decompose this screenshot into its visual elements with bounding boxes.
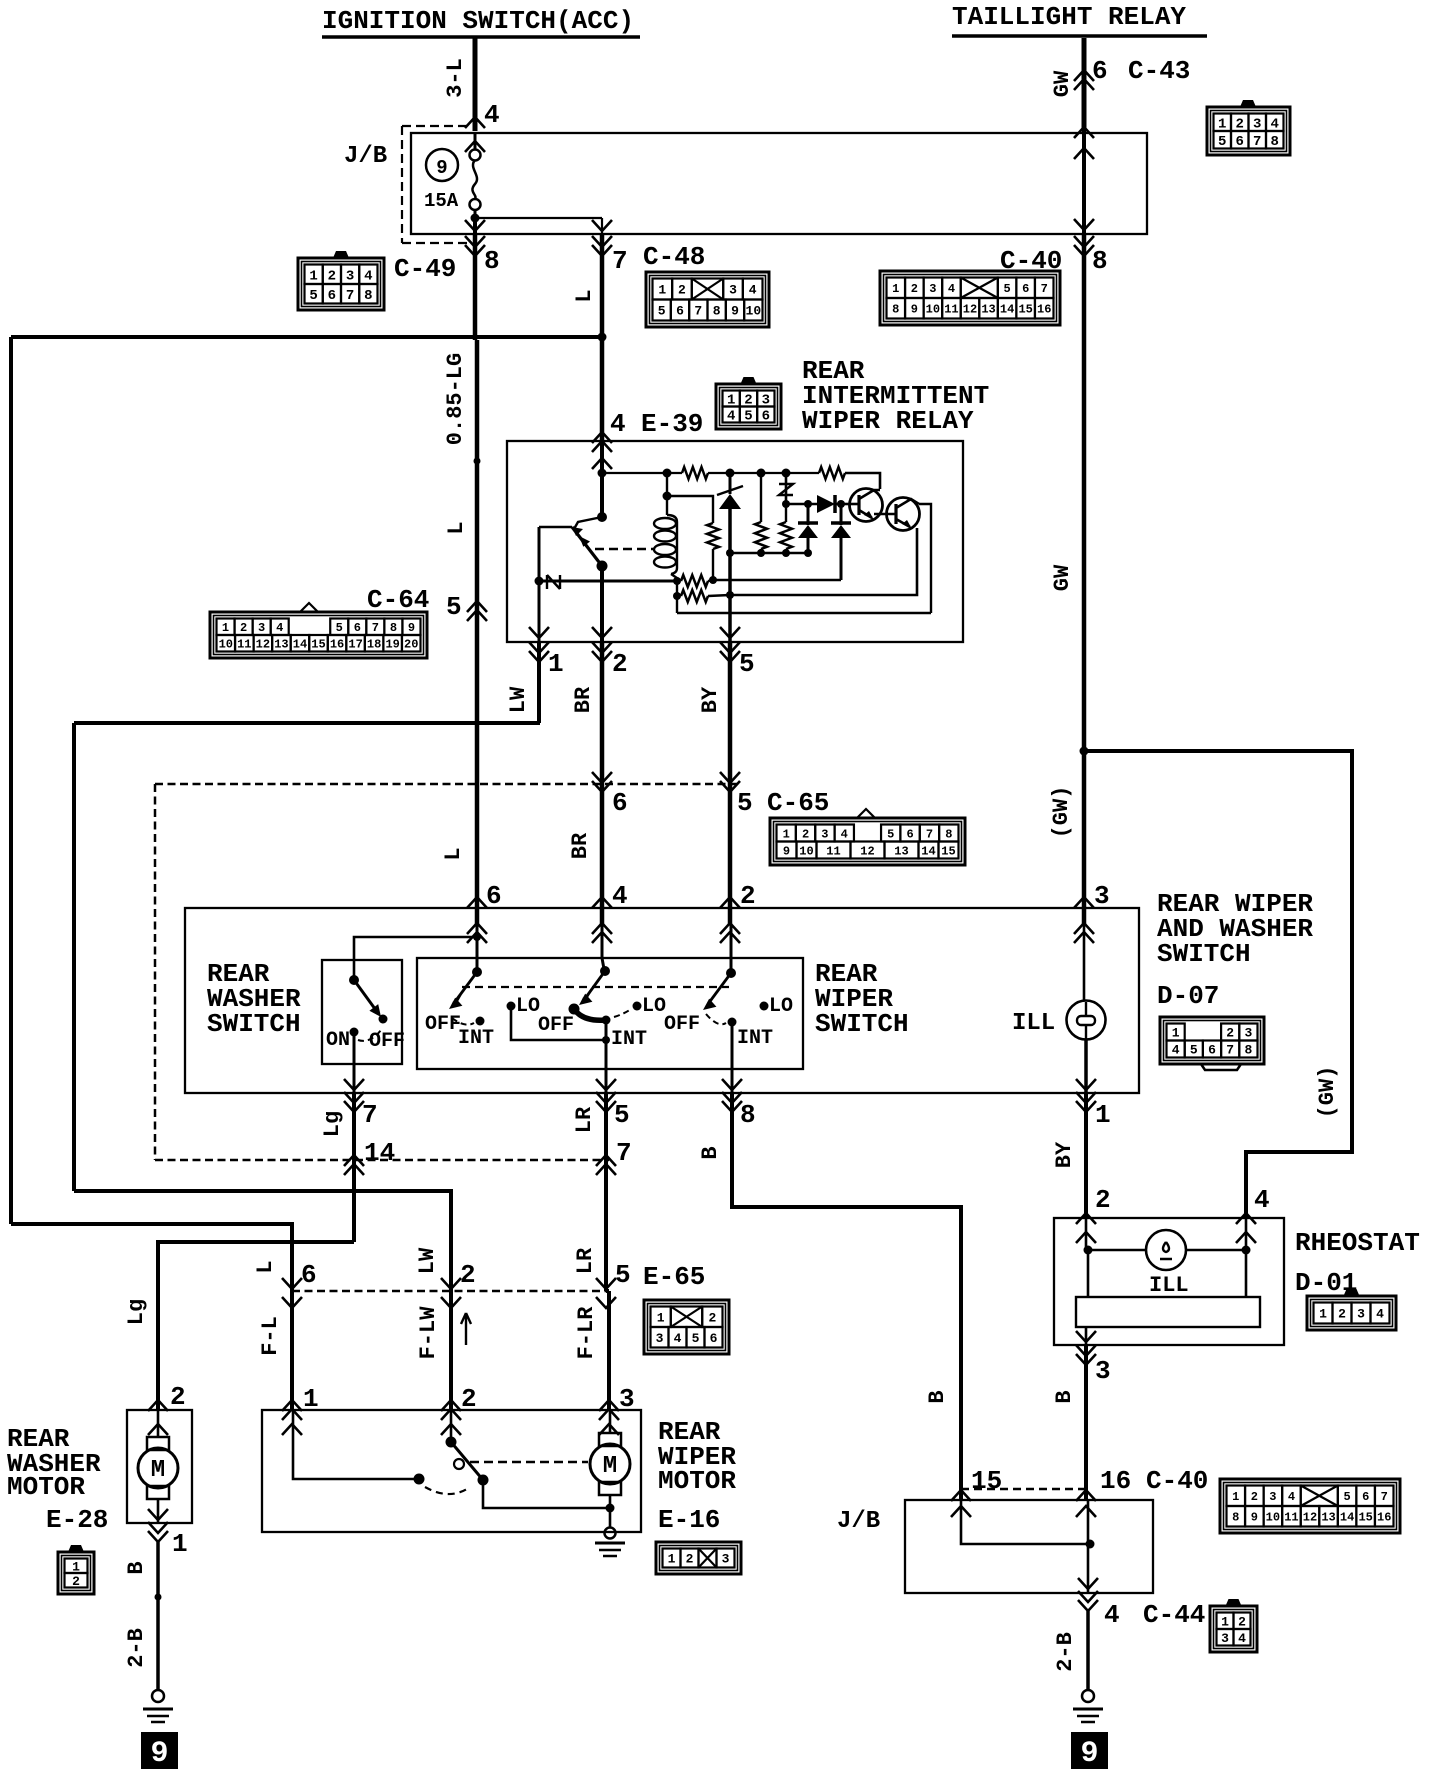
svg-text:6: 6 bbox=[710, 1331, 718, 1346]
pin 8 arrow C-49 bbox=[473, 218, 477, 234]
switch entry pin 4 BR bbox=[592, 897, 612, 908]
washer motor entry pin 2 bbox=[148, 1400, 168, 1411]
wire L rail2 segment bbox=[11, 1224, 292, 1291]
svg-text:6: 6 bbox=[676, 304, 684, 319]
svg-text:8: 8 bbox=[1271, 134, 1279, 150]
svg-text:L: L bbox=[441, 847, 466, 860]
svg-text:F-L: F-L bbox=[258, 1316, 283, 1356]
svg-text:8: 8 bbox=[364, 288, 372, 304]
washer contact ON bbox=[350, 1028, 359, 1037]
svg-text:8: 8 bbox=[1092, 246, 1108, 276]
svg-text:14: 14 bbox=[364, 1138, 395, 1168]
svg-text:5: 5 bbox=[1218, 134, 1226, 150]
svg-text:7: 7 bbox=[1041, 282, 1048, 296]
svg-text:6: 6 bbox=[762, 409, 770, 425]
svg-text:10: 10 bbox=[219, 638, 233, 652]
wire LR bbox=[604, 1093, 608, 1291]
wire coil bottom bbox=[671, 574, 677, 613]
svg-text:BR: BR bbox=[568, 832, 593, 859]
contact N symbol bbox=[547, 575, 560, 589]
svg-text:5: 5 bbox=[336, 621, 343, 635]
svg-text:ILL: ILL bbox=[1149, 1273, 1189, 1298]
svg-text:1: 1 bbox=[172, 1529, 188, 1559]
junction GW branch bbox=[1080, 747, 1089, 756]
svg-text:7: 7 bbox=[616, 1138, 632, 1168]
svg-text:7: 7 bbox=[612, 246, 628, 276]
svg-text:M: M bbox=[603, 1453, 617, 1480]
svg-text:4: 4 bbox=[612, 881, 628, 911]
svg-text:2: 2 bbox=[1095, 1185, 1111, 1215]
svg-text:C-40: C-40 bbox=[1146, 1466, 1208, 1496]
connector C-64 arrows pin 5 bbox=[467, 601, 487, 612]
J/B 2 entry pin 16 bbox=[1076, 1490, 1096, 1501]
svg-text:16: 16 bbox=[330, 638, 344, 652]
wire B washer bbox=[156, 1542, 160, 1597]
svg-text:2: 2 bbox=[1238, 1614, 1246, 1629]
dashed link arm to coil bbox=[595, 548, 654, 551]
washer switch contact top bbox=[349, 975, 359, 985]
washer contact OFF bbox=[379, 1015, 388, 1024]
svg-text:5: 5 bbox=[309, 288, 317, 304]
svg-text:1: 1 bbox=[1221, 1614, 1229, 1629]
J/B 2 dashed link 15-16 bbox=[961, 1488, 1088, 1491]
svg-text:C-43: C-43 bbox=[1128, 56, 1190, 86]
svg-text:8: 8 bbox=[945, 827, 952, 841]
pin 4 arrow into J/B bbox=[465, 117, 485, 128]
svg-text:4: 4 bbox=[948, 282, 955, 296]
svg-text:6: 6 bbox=[1022, 282, 1029, 296]
relay armature switch bbox=[597, 512, 607, 522]
svg-text:OFF: OFF bbox=[425, 1013, 461, 1036]
svg-text:1: 1 bbox=[1095, 1100, 1111, 1130]
junction B/2-B bbox=[155, 1594, 162, 1601]
relay coil bbox=[654, 518, 676, 529]
resistor R6 bbox=[760, 473, 762, 522]
washer switch box bbox=[322, 960, 402, 1064]
svg-text:14: 14 bbox=[921, 844, 935, 858]
zener diode Z2 bbox=[785, 473, 788, 504]
svg-text:15: 15 bbox=[1018, 303, 1032, 317]
connector E-39 icon bbox=[716, 377, 781, 429]
wiper sw3 INT contact bbox=[728, 1018, 737, 1027]
wiper sw3 contact top bbox=[726, 968, 736, 978]
svg-text:6: 6 bbox=[906, 827, 913, 841]
svg-text:LW: LW bbox=[415, 1247, 440, 1274]
svg-text:5: 5 bbox=[737, 788, 753, 818]
diode D2 bbox=[807, 504, 810, 525]
svg-text:8: 8 bbox=[1244, 1043, 1252, 1058]
wire ILL out bbox=[1084, 1040, 1088, 1093]
svg-text:14: 14 bbox=[1340, 1511, 1354, 1525]
svg-text:6: 6 bbox=[1092, 56, 1108, 86]
svg-text:3: 3 bbox=[821, 827, 828, 841]
svg-text:J/B: J/B bbox=[837, 1508, 880, 1535]
rheostat entry pin 4 bbox=[1236, 1213, 1256, 1224]
wire BR inside switch bbox=[601, 925, 604, 958]
wire B rheostat down bbox=[1084, 1345, 1088, 1501]
wiper motor box bbox=[262, 1410, 641, 1532]
svg-text:BR: BR bbox=[571, 686, 596, 713]
svg-text:10: 10 bbox=[746, 304, 762, 319]
svg-text:8: 8 bbox=[740, 1100, 756, 1130]
svg-text:9: 9 bbox=[783, 844, 790, 858]
switch exit pin 8 B bbox=[722, 1079, 742, 1090]
svg-text:LR: LR bbox=[573, 1247, 598, 1274]
svg-text:4: 4 bbox=[1104, 1600, 1120, 1630]
svg-text:ILL: ILL bbox=[1012, 1010, 1055, 1037]
connector E-16 icon bbox=[656, 1542, 741, 1574]
relay inner bottom rail bbox=[677, 612, 931, 614]
wire (GW) branch right bbox=[1084, 751, 1352, 1218]
svg-text:4: 4 bbox=[610, 409, 626, 439]
wire F-L bbox=[290, 1291, 294, 1410]
switch entry pin 2 BY bbox=[720, 897, 740, 908]
wire 15 inside bbox=[961, 1500, 1090, 1544]
svg-text:13: 13 bbox=[894, 844, 908, 858]
park dashed arc bbox=[425, 1487, 467, 1494]
wiper sw1 arm bbox=[454, 972, 477, 1003]
svg-text:2: 2 bbox=[72, 1574, 80, 1589]
park switch contact A bbox=[414, 1474, 425, 1485]
zener diode Z1 bbox=[729, 473, 732, 494]
wire BR relay pin2 down bbox=[600, 642, 605, 925]
wire Lg bbox=[352, 1093, 356, 1242]
rheostat D-01 box bbox=[1054, 1218, 1284, 1345]
svg-text:16: 16 bbox=[1100, 1466, 1131, 1496]
svg-text:Lg: Lg bbox=[124, 1299, 149, 1325]
svg-text:4: 4 bbox=[1172, 1043, 1180, 1058]
svg-text:OFF: OFF bbox=[664, 1013, 700, 1036]
wiper sw2 dashed arc bbox=[614, 1009, 631, 1017]
resistor R3 bbox=[681, 575, 708, 587]
wire 2-B washer bbox=[156, 1597, 160, 1690]
svg-text:SWITCH: SWITCH bbox=[1157, 939, 1251, 969]
svg-text:6: 6 bbox=[1208, 1043, 1216, 1058]
svg-text:15A: 15A bbox=[424, 190, 459, 212]
svg-text:C-48: C-48 bbox=[643, 242, 705, 272]
rheostat exit pin 3 bbox=[1076, 1331, 1096, 1342]
svg-text:4: 4 bbox=[841, 827, 848, 841]
svg-text:13: 13 bbox=[981, 303, 995, 317]
wiper sw3 arm bbox=[708, 973, 731, 1004]
svg-text:5: 5 bbox=[887, 827, 894, 841]
svg-text:2: 2 bbox=[170, 1382, 186, 1412]
svg-text:MOTOR: MOTOR bbox=[7, 1472, 85, 1502]
svg-text:6: 6 bbox=[612, 788, 628, 818]
relay pin 1 arrow bbox=[529, 627, 549, 638]
wire Lg inside bbox=[353, 1032, 356, 1093]
switch arm bbox=[572, 527, 602, 566]
svg-text:6: 6 bbox=[486, 881, 502, 911]
svg-text:11: 11 bbox=[944, 303, 958, 317]
svg-text:8: 8 bbox=[390, 621, 397, 635]
svg-text:SWITCH: SWITCH bbox=[207, 1009, 301, 1039]
C-64 crossing pin 14 bbox=[344, 1155, 364, 1166]
svg-text:1: 1 bbox=[309, 268, 317, 284]
svg-text:4: 4 bbox=[749, 283, 757, 298]
relay armature feed stub bbox=[600, 473, 604, 517]
svg-text:B: B bbox=[925, 1390, 950, 1403]
wiper sw1 contact top bbox=[472, 967, 482, 977]
wire L horizontal to left rail bbox=[11, 335, 602, 339]
svg-text:1: 1 bbox=[892, 282, 899, 296]
wire L inside switch bbox=[476, 925, 479, 972]
fuse circle 9 bbox=[426, 149, 458, 181]
motor entry pin 3 bbox=[599, 1400, 619, 1411]
switch exit pin 7 Lg bbox=[344, 1079, 364, 1090]
E-65 pin 6 bbox=[282, 1278, 302, 1289]
junction block J/B 2 box bbox=[905, 1500, 1153, 1593]
svg-text:9: 9 bbox=[150, 1737, 168, 1771]
svg-text:D-07: D-07 bbox=[1157, 981, 1219, 1011]
svg-text:8: 8 bbox=[484, 246, 500, 276]
svg-text:B: B bbox=[124, 1561, 149, 1574]
relay pin1 wire inside bbox=[538, 527, 541, 642]
svg-text:10: 10 bbox=[799, 844, 813, 858]
svg-text:4: 4 bbox=[1376, 1307, 1384, 1322]
resistor R2 bbox=[819, 467, 845, 479]
switch entry pin 3 bbox=[1074, 897, 1094, 908]
svg-text:8: 8 bbox=[1232, 1511, 1239, 1525]
svg-text:3: 3 bbox=[1269, 1490, 1276, 1504]
svg-text:9: 9 bbox=[1251, 1511, 1258, 1525]
wiper switch box bbox=[417, 958, 803, 1069]
svg-text:9: 9 bbox=[436, 157, 447, 179]
svg-text:4: 4 bbox=[727, 409, 735, 425]
wire 0.85-LG down to switch bbox=[473, 234, 478, 340]
wire LW to left rail2 bbox=[74, 721, 540, 725]
svg-text:2: 2 bbox=[240, 621, 247, 635]
svg-text:1: 1 bbox=[1319, 1307, 1327, 1322]
svg-text:E-16: E-16 bbox=[658, 1505, 720, 1535]
svg-text:5: 5 bbox=[1004, 282, 1011, 296]
washer switch arm bbox=[354, 980, 378, 1013]
svg-text:ON: ON bbox=[326, 1029, 350, 1052]
wiper sw2 OFF contact bbox=[569, 1004, 580, 1015]
rheostat entry pin 2 bbox=[1076, 1213, 1096, 1224]
svg-text:3: 3 bbox=[1094, 881, 1110, 911]
transistor Q1 bbox=[850, 489, 883, 522]
wire washer feed bbox=[354, 937, 477, 980]
diode D3 bbox=[840, 504, 843, 525]
connector C-65 dashed boundary bbox=[155, 783, 737, 786]
svg-text:12: 12 bbox=[860, 844, 874, 858]
connector C-43 icon bbox=[1207, 100, 1290, 155]
svg-text:0.85-LG: 0.85-LG bbox=[443, 353, 468, 445]
svg-text:5: 5 bbox=[1344, 1490, 1351, 1504]
svg-text:5: 5 bbox=[615, 1260, 631, 1290]
svg-text:J/B: J/B bbox=[344, 143, 387, 170]
svg-text:INT: INT bbox=[611, 1028, 647, 1051]
J/B 2 entry pin 15 bbox=[951, 1490, 971, 1501]
wiper sw3 dashed arc bbox=[706, 1014, 726, 1024]
relay chevron pin4 inside bbox=[592, 458, 612, 469]
arrow up small bbox=[461, 1313, 471, 1345]
svg-text:5: 5 bbox=[692, 1331, 700, 1346]
svg-text:4: 4 bbox=[1238, 1631, 1246, 1646]
svg-text:18: 18 bbox=[367, 638, 381, 652]
svg-text:RHEOSTAT: RHEOSTAT bbox=[1295, 1228, 1420, 1258]
wire Lg to washer motor bbox=[158, 1242, 354, 1410]
svg-text:1: 1 bbox=[783, 827, 790, 841]
svg-text:2: 2 bbox=[1226, 1026, 1234, 1041]
svg-text:9: 9 bbox=[911, 303, 918, 317]
svg-text:7: 7 bbox=[926, 827, 933, 841]
C-65 crossing BR pin 6 bbox=[592, 781, 612, 792]
svg-text:F-LW: F-LW bbox=[416, 1306, 441, 1360]
relay node top rail bbox=[598, 469, 607, 478]
svg-text:1: 1 bbox=[303, 1384, 319, 1414]
wire LW rail bbox=[74, 1191, 451, 1291]
svg-text:5: 5 bbox=[614, 1100, 630, 1130]
wiper sw2 contact top bbox=[600, 966, 610, 976]
svg-text:4: 4 bbox=[276, 621, 283, 635]
connector C-49 icon bbox=[298, 251, 384, 310]
svg-text:1: 1 bbox=[1172, 1026, 1180, 1041]
svg-text:6: 6 bbox=[301, 1260, 317, 1290]
junction at pin7 wire bbox=[598, 333, 607, 342]
svg-text:BY: BY bbox=[698, 686, 723, 713]
C-65 crossing BY pin 5 bbox=[720, 781, 740, 792]
svg-text:7: 7 bbox=[1381, 1490, 1388, 1504]
svg-text:L: L bbox=[253, 1260, 278, 1273]
svg-text:2-B: 2-B bbox=[1053, 1632, 1078, 1672]
svg-text:2: 2 bbox=[612, 649, 628, 679]
svg-text:GW: GW bbox=[1050, 70, 1075, 97]
svg-text:4: 4 bbox=[484, 100, 500, 130]
wire coil node to R5 bbox=[667, 496, 713, 523]
wire BY relay pin5 down bbox=[728, 642, 733, 925]
svg-text:C-65: C-65 bbox=[767, 788, 829, 818]
switch D-07 box bbox=[185, 908, 1139, 1093]
ground ref 9 right bbox=[1071, 1732, 1108, 1769]
svg-text:2: 2 bbox=[328, 268, 336, 284]
wire 3-L from ignition switch bbox=[473, 38, 478, 131]
svg-text:7: 7 bbox=[346, 288, 354, 304]
svg-text:3: 3 bbox=[1244, 1026, 1252, 1041]
E-65 pin 2 bbox=[441, 1278, 461, 1289]
svg-text:8: 8 bbox=[713, 304, 721, 319]
relay node mid rail bbox=[786, 503, 817, 506]
washer motor exit pin 1 bbox=[148, 1509, 168, 1520]
svg-text:3: 3 bbox=[1095, 1356, 1111, 1386]
rear washer motor M bbox=[157, 1410, 160, 1437]
svg-text:6: 6 bbox=[354, 621, 361, 635]
relay E-39 pin 4 arrows bbox=[592, 432, 612, 443]
svg-text:2: 2 bbox=[740, 881, 756, 911]
svg-text:19: 19 bbox=[385, 638, 399, 652]
wiper sw2 LO contact bbox=[633, 1002, 642, 1011]
svg-text:LW: LW bbox=[506, 686, 531, 713]
relay pin 2 arrow bbox=[592, 627, 612, 638]
svg-text:3: 3 bbox=[619, 1384, 635, 1414]
svg-text:OFF: OFF bbox=[369, 1030, 405, 1053]
svg-text:11: 11 bbox=[1284, 1511, 1298, 1525]
junction block J/B (dashed) bbox=[402, 125, 468, 127]
wire lower rail to Q2 emitter bbox=[730, 528, 917, 595]
svg-text:7: 7 bbox=[372, 621, 379, 635]
wire F-LW inside bbox=[450, 1410, 453, 1442]
svg-text:1: 1 bbox=[657, 1310, 665, 1325]
splice 0.85-LG/L bbox=[474, 458, 481, 465]
svg-text:9: 9 bbox=[408, 621, 415, 635]
connector C-64 icon bbox=[210, 603, 427, 658]
svg-text:10: 10 bbox=[926, 303, 940, 317]
relay pin4 stub bbox=[600, 441, 604, 473]
svg-text:6: 6 bbox=[1362, 1490, 1369, 1504]
svg-text:SWITCH: SWITCH bbox=[815, 1009, 909, 1039]
motor entry pin 2 bbox=[441, 1400, 461, 1411]
wiper sw2 arm bold arc bbox=[574, 1009, 606, 1020]
svg-text:3: 3 bbox=[1221, 1631, 1229, 1646]
svg-text:1: 1 bbox=[1232, 1490, 1239, 1504]
relay pin5 wire inside bbox=[728, 613, 732, 642]
svg-text:(GW): (GW) bbox=[1049, 786, 1074, 839]
svg-text:20: 20 bbox=[404, 638, 418, 652]
svg-text:16: 16 bbox=[1037, 303, 1051, 317]
svg-text:4: 4 bbox=[1288, 1490, 1295, 1504]
svg-text:15: 15 bbox=[941, 844, 955, 858]
park switch contact B bbox=[478, 1475, 489, 1486]
svg-text:E-28: E-28 bbox=[46, 1505, 108, 1535]
J/B 2 exit pin 4 bbox=[1078, 1578, 1098, 1589]
svg-text:3: 3 bbox=[258, 621, 265, 635]
junction 15-16 bbox=[1086, 1540, 1095, 1549]
rear wiper motor M bbox=[609, 1410, 612, 1433]
svg-text:2: 2 bbox=[1251, 1490, 1258, 1504]
wiper sw1 INT contact bbox=[476, 1017, 485, 1026]
svg-text:15: 15 bbox=[971, 1466, 1002, 1496]
svg-text:14: 14 bbox=[1000, 303, 1014, 317]
svg-text:Lg: Lg bbox=[320, 1111, 345, 1137]
washer dashed arc bbox=[358, 1030, 381, 1041]
svg-text:7: 7 bbox=[362, 1100, 378, 1130]
wiper motor ground bbox=[605, 1528, 616, 1539]
svg-text:IGNITION SWITCH(ACC): IGNITION SWITCH(ACC) bbox=[322, 6, 634, 36]
svg-text:LO: LO bbox=[769, 995, 793, 1018]
park switch arm bbox=[451, 1442, 483, 1480]
resistor R1 bbox=[682, 467, 708, 479]
wiper sw1 LO contact bbox=[507, 1002, 516, 1011]
connector E-65 icon bbox=[644, 1300, 729, 1354]
pin 7 arrow C-48 bbox=[592, 245, 612, 256]
motor entry pin 1 bbox=[282, 1400, 302, 1411]
wire GW from taillight relay bbox=[1082, 38, 1087, 131]
wire L left rail down bbox=[9, 337, 13, 1224]
ground washer motor bbox=[152, 1690, 164, 1702]
relay coil feed bbox=[666, 473, 668, 515]
svg-text:3: 3 bbox=[346, 268, 354, 284]
switch exit pin 1 BY bbox=[1076, 1079, 1096, 1090]
svg-text:11: 11 bbox=[237, 638, 251, 652]
svg-text:LO: LO bbox=[516, 995, 540, 1018]
wire sw1 LO to sw2 INT bbox=[511, 1006, 606, 1040]
wiper switch gang dashed link bbox=[462, 986, 729, 988]
svg-text:L: L bbox=[444, 521, 469, 534]
svg-text:OFF: OFF bbox=[538, 1014, 574, 1037]
wire rail to transistor Q1 collector bbox=[845, 473, 880, 489]
svg-text:7: 7 bbox=[1226, 1043, 1234, 1058]
ground ref 9 left bbox=[141, 1732, 178, 1769]
svg-text:LR: LR bbox=[572, 1106, 597, 1133]
svg-text:5: 5 bbox=[658, 304, 666, 319]
svg-text:3: 3 bbox=[656, 1331, 664, 1346]
connector C-40 icon top bbox=[880, 271, 1060, 325]
relay pin 5 arrow bbox=[720, 627, 740, 638]
svg-text:1: 1 bbox=[222, 621, 229, 635]
svg-text:2-B: 2-B bbox=[124, 1628, 149, 1668]
svg-text:3: 3 bbox=[929, 282, 936, 296]
